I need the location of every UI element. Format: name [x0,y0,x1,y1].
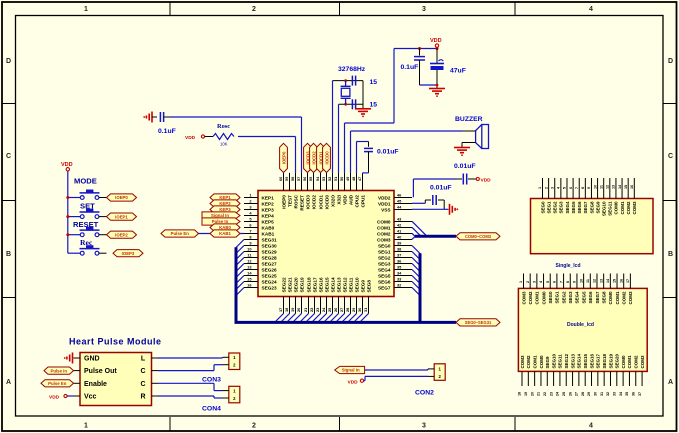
switch S2 SET [66,202,106,219]
svg-text:A: A [668,379,673,386]
svg-text:SEG16: SEG16 [318,277,323,293]
svg-text:SEG16: SEG16 [589,353,594,368]
svg-text:SEG17: SEG17 [596,353,601,368]
svg-text:SEG23: SEG23 [262,285,278,290]
svg-text:SEG15: SEG15 [583,353,588,368]
svg-text:28: 28 [581,392,585,396]
svg-text:COM0~COM3: COM0~COM3 [465,234,492,239]
wires SEG22-SEG8 pins to bus [275,314,369,323]
svg-text:SEG10: SEG10 [602,201,607,216]
svg-text:B: B [6,251,11,258]
svg-text:COM2: COM2 [528,291,533,304]
svg-text:SEG5: SEG5 [581,291,586,304]
svg-text:1: 1 [84,423,88,430]
svg-text:IOCD2: IOCD2 [311,195,316,210]
svg-text:2: 2 [544,187,548,189]
svg-text:SEG6: SEG6 [378,279,391,284]
svg-text:VDD: VDD [348,379,359,385]
svg-text:COM0: COM0 [608,291,613,304]
svg-text:D: D [668,58,673,65]
bus right vertical [419,253,422,322]
wire Pulse En to KAB1 [199,233,245,235]
svg-text:SEG26: SEG26 [262,267,278,272]
svg-text:VDD: VDD [49,395,60,401]
connector CON2 [415,364,445,397]
svg-text:7: 7 [575,187,579,189]
svg-text:RESET: RESET [73,220,99,229]
svg-text:IOEP0: IOEP0 [115,195,128,200]
port Pulse En (to U1) [161,230,199,237]
svg-text:COM1: COM1 [377,225,391,230]
node IOEP2 [107,231,137,238]
node IOEP1 [107,213,137,220]
svg-text:0.01uF: 0.01uF [377,149,399,156]
svg-text:COM0: COM0 [541,291,546,304]
capacitor C4 15pF [352,99,377,109]
svg-text:26: 26 [568,392,572,396]
switch S1 MODE [66,177,106,200]
svg-text:COM3: COM3 [521,291,526,304]
svg-text:VDD: VDD [185,135,196,141]
svg-text:COM1: COM1 [615,291,620,304]
svg-text:30: 30 [594,392,598,396]
bus COM0-COM3 [415,235,456,238]
svg-text:0.1uF: 0.1uF [158,128,176,135]
svg-text:SET: SET [80,202,95,211]
svg-text:SEG12: SEG12 [564,353,569,368]
svg-text:COM0: COM0 [377,219,391,224]
ground (U2 GND) [64,353,73,364]
svg-text:KEP2: KEP2 [262,201,275,206]
connector CON4 [202,386,240,412]
svg-text:3: 3 [422,6,426,13]
ground (0.1uF cap) [143,112,157,123]
power VDD (U2 Vcc) [49,394,74,400]
svg-text:SEG22: SEG22 [281,277,286,293]
wire Rosc to ROSC pin [238,137,296,173]
svg-text:COM2: COM2 [634,355,639,368]
svg-text:COM1: COM1 [620,201,625,214]
port Pulse In (U1) [202,218,240,225]
svg-text:17: 17 [278,308,283,312]
svg-text:KAB1: KAB1 [219,231,231,236]
svg-text:4: 4 [589,423,593,430]
svg-text:40: 40 [397,234,401,239]
svg-text:Single_lcd: Single_lcd [556,263,581,269]
wire VDD to CON2.2 [364,376,428,380]
svg-text:COM2: COM2 [377,231,391,236]
svg-text:3: 3 [533,281,537,283]
wire caps to ground [362,81,364,109]
svg-text:SEG15: SEG15 [324,277,329,293]
svg-text:SEG1: SEG1 [546,201,551,214]
svg-text:SEG20: SEG20 [293,277,298,293]
svg-text:0.1uF: 0.1uF [401,64,419,71]
svg-text:1: 1 [519,281,523,283]
svg-text:SEG5: SEG5 [571,201,576,214]
svg-text:12: 12 [593,279,597,283]
svg-text:SEG11: SEG11 [348,277,353,292]
ground (crystal) [355,109,371,118]
svg-text:C: C [668,153,673,160]
node IOCD1 [317,143,325,172]
wires SEG0-SEG7 pins to bus [412,246,420,296]
svg-text:SEG30: SEG30 [262,243,278,248]
node KEP3 [210,206,240,213]
label Single_lcd [556,263,581,269]
svg-text:1: 1 [538,187,542,189]
crystal Y1 32768Hz [341,81,351,105]
svg-text:Rosc: Rosc [217,123,230,130]
svg-text:KEP3: KEP3 [262,207,275,212]
svg-text:11: 11 [599,185,603,189]
wire X32I [338,104,340,173]
svg-text:SEG10: SEG10 [354,277,359,293]
svg-text:SEG18: SEG18 [602,353,607,368]
svg-text:COM0: COM0 [539,355,544,368]
wire Signal In to CON2.1 [365,369,428,370]
svg-text:SEG1: SEG1 [378,249,391,254]
node KAB1 [210,230,240,237]
svg-text:37: 37 [397,252,401,257]
svg-text:15: 15 [613,279,617,283]
port Pulse En (module) [41,380,74,387]
node KEP1 [210,194,240,201]
svg-text:IOEP1: IOEP1 [115,214,128,219]
svg-text:10: 10 [247,246,251,251]
svg-text:15: 15 [370,102,378,109]
svg-text:20: 20 [296,308,301,312]
svg-text:VDD2: VDD2 [378,195,391,200]
svg-text:SEG20: SEG20 [615,353,620,368]
svg-text:IOEP3: IOEP3 [122,251,135,256]
svg-text:C: C [140,368,145,375]
svg-text:8: 8 [581,187,585,189]
svg-text:16: 16 [630,185,634,189]
port Pulse In (module) [44,367,74,374]
svg-text:KAB0: KAB0 [262,225,275,230]
svg-text:SEG2: SEG2 [553,201,558,214]
svg-text:27: 27 [339,308,344,312]
svg-text:8: 8 [566,281,570,283]
svg-text:IOEP0: IOEP0 [281,151,286,164]
svg-text:10K: 10K [220,142,228,147]
svg-text:50: 50 [339,177,344,181]
svg-text:COM3: COM3 [520,355,525,368]
U1 bottom pins 17-31 (SEG22-SEG8) [278,277,371,314]
svg-text:SEG19: SEG19 [299,277,304,293]
svg-text:Signal In: Signal In [342,368,360,373]
svg-text:SEG5: SEG5 [378,273,391,278]
capacitor C3 15pF [352,76,377,86]
U3 pins 1-16 (SEG0-SEG11, COM0-COM3) [538,178,637,216]
svg-text:COM2: COM2 [622,291,627,304]
svg-text:SEG8: SEG8 [366,280,371,293]
capacitor C9 0.01uF / VSS [412,185,452,210]
svg-text:COM0: COM0 [614,201,619,214]
wire buzzer terminals [462,131,476,147]
svg-text:SEG7: SEG7 [583,201,588,214]
wires SEG31-SEG23 pins to bus [236,240,244,296]
svg-text:Heart Pulse Module: Heart Pulse Module [69,337,162,347]
bus SEG horizontal [235,321,457,324]
svg-text:SEG12: SEG12 [342,277,347,293]
node IOCD3 [304,143,312,172]
node COM0~COM3 [456,233,500,240]
svg-text:16: 16 [619,279,623,283]
ground (VSS) [450,204,459,215]
svg-text:SEG2: SEG2 [561,291,566,304]
svg-text:X32I: X32I [336,195,341,205]
svg-text:3: 3 [422,423,426,430]
ground (buzzer) [454,148,470,157]
svg-text:SEG7: SEG7 [595,291,600,304]
svg-text:32: 32 [606,392,610,396]
svg-text:SEG6: SEG6 [588,291,593,304]
svg-text:Double_lcd: Double_lcd [567,322,594,328]
wire VDD top rail [394,47,439,50]
svg-text:SEG13: SEG13 [570,353,575,368]
svg-text:KEP1: KEP1 [262,195,275,200]
node KEP2 [210,200,240,207]
svg-text:C: C [6,153,11,160]
wire U2-PulseOut to CON3.2 [158,365,223,371]
svg-text:SEG3: SEG3 [559,201,564,214]
svg-text:0.01uF: 0.01uF [454,163,476,170]
switch S3 RESET [66,220,106,237]
svg-text:A: A [6,379,11,386]
wire cap bottoms [420,84,439,87]
node IOCD2 [310,143,318,172]
wire crystal bottom rail [339,103,364,106]
svg-text:7: 7 [249,228,251,233]
svg-text:47: 47 [357,177,362,181]
switch S4 Rec [68,238,107,255]
svg-text:19: 19 [524,392,528,396]
svg-text:COM1: COM1 [627,355,632,368]
svg-text:MODE: MODE [74,177,97,186]
resistor Rosc 10K [213,123,234,147]
svg-text:GND: GND [84,356,100,363]
svg-text:30: 30 [357,308,362,312]
svg-text:SEG14: SEG14 [330,277,335,293]
svg-text:22: 22 [543,392,547,396]
svg-text:B: B [668,251,673,258]
svg-text:VDD: VDD [61,162,73,168]
node IOEP3 [113,250,143,257]
svg-text:SEG19: SEG19 [608,353,613,368]
svg-text:Vcc: Vcc [84,394,97,401]
wire VDD rail to U1 VDD pin [345,49,395,173]
svg-text:35: 35 [625,392,629,396]
svg-text:Pulse En: Pulse En [48,381,67,386]
svg-text:BUZZER: BUZZER [455,116,483,123]
svg-text:CPU2: CPU2 [354,195,359,208]
connector CON3 [202,353,240,384]
svg-text:IOEP0: IOEP0 [281,195,286,209]
U1 right pins 46-32 (VDD2, VDD1, VSS, COM0-COM3, SEG0-SEG7) [377,192,412,290]
svg-text:SEG0: SEG0 [540,201,545,214]
svg-text:SEG7: SEG7 [378,285,391,290]
svg-text:12: 12 [606,185,610,189]
svg-text:SEG21: SEG21 [287,277,292,293]
svg-text:SEG6: SEG6 [577,201,582,214]
wire U2-Enable to CON4.1 [158,383,223,390]
svg-text:17: 17 [626,279,630,283]
svg-text:X32O: X32O [330,195,335,207]
svg-text:9: 9 [573,281,577,283]
svg-text:10: 10 [593,185,597,189]
svg-text:COM0: COM0 [621,355,626,368]
svg-text:29: 29 [587,392,591,396]
svg-text:CPU1: CPU1 [360,195,365,208]
svg-text:25: 25 [562,392,566,396]
svg-text:SEG9: SEG9 [545,356,550,369]
svg-text:7: 7 [559,281,563,283]
svg-text:SEG0~SEG31: SEG0~SEG31 [465,320,492,325]
svg-text:SEG3: SEG3 [378,261,391,266]
svg-text:SEG0: SEG0 [548,291,553,304]
svg-text:6: 6 [553,281,557,283]
svg-text:SEG10: SEG10 [551,353,556,368]
svg-text:KEP5: KEP5 [262,219,275,224]
module U2 body [80,353,152,406]
svg-text:SEG14: SEG14 [577,353,582,368]
power VDD (CON2) [348,379,364,385]
svg-text:IOCD1: IOCD1 [318,195,323,210]
svg-text:10: 10 [579,279,583,283]
power VDD (keys) [61,162,73,171]
svg-text:21: 21 [537,392,541,396]
svg-text:15: 15 [370,79,378,86]
svg-text:VDD: VDD [430,38,442,44]
svg-text:SEG31: SEG31 [262,237,278,242]
svg-text:SEG13: SEG13 [336,277,341,293]
svg-text:20: 20 [530,392,534,396]
svg-text:RESET: RESET [299,195,304,211]
node IOEP0 [107,194,137,201]
svg-text:COM3: COM3 [640,355,645,368]
svg-text:5: 5 [563,187,567,189]
svg-text:Rec: Rec [80,238,93,247]
wire X32O [332,81,334,173]
capacitor C5 0.1uF [401,49,426,86]
svg-text:Pulse En: Pulse En [171,231,190,236]
LCD U4 body [518,288,647,371]
svg-text:KEP4: KEP4 [262,213,275,218]
svg-text:SEG4: SEG4 [565,201,570,214]
power VDD (top) [430,38,442,49]
svg-text:IOCD3: IOCD3 [305,195,310,210]
svg-text:32768Hz: 32768Hz [338,66,366,73]
svg-text:SEG25: SEG25 [262,273,278,278]
svg-text:KAB1: KAB1 [262,231,275,236]
capacitor C7 0.01uF [357,142,399,173]
label BUZZER [455,116,483,123]
node IOCD0 [323,143,331,172]
capacitor C1 0.1uF [158,112,176,135]
wire C1 to RESET pin [170,117,302,173]
svg-text:SEG29: SEG29 [262,249,278,254]
U1 left pins 1-16 (KEP1-KEP5, KAB0-KAB1, SEG31-SEG23) [244,192,277,290]
U4 bottom pins (COM3-COM0, SEG9-SEG20, COM0-COM3) [518,353,645,396]
svg-text:23: 23 [549,392,553,396]
svg-text:SEG28: SEG28 [262,255,278,260]
port Signal In (CON2) [335,366,365,373]
svg-text:TEST: TEST [287,195,292,207]
svg-text:2: 2 [252,423,256,430]
svg-text:CON3: CON3 [202,377,221,384]
svg-text:11: 11 [586,279,590,283]
node KAB0 [210,224,240,231]
ground (C5/C6) [429,89,445,98]
svg-text:SEG0: SEG0 [378,243,391,248]
svg-text:13: 13 [612,185,616,189]
svg-text:ROSC: ROSC [293,194,298,208]
svg-text:Pulse Out: Pulse Out [84,368,117,375]
svg-text:VDD1: VDD1 [378,201,391,206]
svg-text:VDD: VDD [342,194,347,205]
svg-text:2: 2 [252,6,256,13]
svg-text:SEG11: SEG11 [558,354,563,369]
svg-text:15: 15 [624,185,628,189]
svg-text:SEG24: SEG24 [262,279,278,284]
svg-text:C: C [140,381,145,388]
svg-text:3: 3 [550,187,554,189]
svg-text:SEG9: SEG9 [360,280,365,293]
port Signal In (U1) [202,212,240,219]
svg-text:VSS: VSS [381,207,390,212]
buzzer LS1 [476,125,489,149]
svg-text:27: 27 [575,392,579,396]
svg-text:47uF: 47uF [450,68,466,75]
svg-text:33: 33 [613,392,617,396]
svg-text:9: 9 [587,187,591,189]
svg-text:VDD: VDD [481,178,492,184]
svg-text:1: 1 [84,6,88,13]
svg-text:SEG1: SEG1 [555,291,560,304]
svg-text:L: L [141,356,146,363]
svg-text:31: 31 [600,392,604,396]
svg-text:R: R [140,394,145,401]
svg-text:0.01uF: 0.01uF [430,185,452,192]
svg-text:2: 2 [526,281,530,283]
svg-text:18: 18 [518,392,522,396]
svg-text:60: 60 [278,177,283,181]
bus left vertical [235,247,238,322]
svg-text:57: 57 [296,177,301,181]
svg-text:SEG18: SEG18 [306,277,311,293]
svg-text:IOCD0: IOCD0 [324,195,329,210]
power VDD (Rosc) [185,135,213,141]
svg-text:36: 36 [631,392,635,396]
svg-text:SEG17: SEG17 [312,277,317,293]
svg-text:COM2: COM2 [626,201,631,214]
svg-text:37: 37 [638,392,642,396]
svg-text:SEG9: SEG9 [595,201,600,214]
svg-text:13: 13 [599,279,603,283]
label Double_lcd [567,322,594,328]
svg-text:SEG4: SEG4 [378,267,391,272]
label 32768Hz [338,66,366,73]
svg-text:SEG8: SEG8 [601,291,606,304]
U1 top pins 60-47 (IOEP0, TEST, ROSC, RESET, IOCD3-IOCD0, X32O, X32I, VDD, AUD, CPU2, CPU1) [278,173,365,211]
wires COM pins to bus [412,221,427,239]
svg-text:6: 6 [569,187,573,189]
op IC U1 body [258,191,394,297]
wire U2-L to CON3.1 [158,356,223,359]
wire VDD key rail [67,171,69,253]
